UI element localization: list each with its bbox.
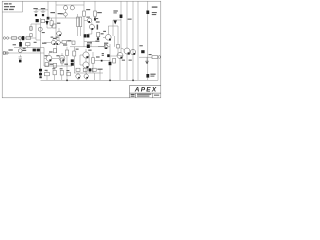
vertical x40	[40, 53, 42, 78]
trimmer circle	[64, 13, 68, 17]
resistor x69	[65, 50, 68, 55]
node blob x48	[47, 17, 50, 20]
diode D5	[120, 15, 123, 19]
wire vertical x121	[120, 1, 122, 52]
resistor horizontal	[62, 41, 67, 44]
driver Q11	[59, 55, 65, 61]
text smudges	[4, 3, 159, 97]
transistor Q7	[57, 31, 62, 36]
junction dots on rail	[66, 80, 68, 82]
resistor R7	[83, 11, 86, 16]
capacitor C3 blob	[22, 36, 25, 40]
vertical x158	[157, 58, 159, 80]
capacitor C2	[41, 10, 46, 13]
resistor box left of x56	[53, 24, 56, 28]
dark mark under box	[97, 37, 99, 40]
bottom transistor QF	[76, 74, 80, 78]
vertical x110	[109, 44, 111, 80]
node wires input stage	[31, 18, 41, 53]
transistor Q6b	[106, 35, 112, 41]
mid small circle	[104, 45, 108, 49]
border frame	[2, 1, 161, 98]
resistor R8	[94, 11, 97, 16]
diff pair Q9	[56, 40, 60, 44]
box D2	[50, 21, 53, 26]
transistor Q1	[38, 27, 42, 31]
wire vertical x127	[126, 1, 128, 48]
capacitor C4 dark	[19, 42, 22, 47]
diodes dark lower left	[84, 34, 87, 37]
output stage upper wire	[70, 46, 106, 48]
small comp	[72, 41, 75, 44]
wire y41.3	[84, 37, 99, 42]
output transistor QB	[83, 62, 89, 68]
svg-text:APEX: APEX	[134, 87, 158, 94]
diode dark on x110	[109, 62, 112, 65]
wire input	[9, 37, 36, 39]
output terminal	[158, 56, 161, 59]
capacitor C1	[34, 10, 39, 13]
resistor	[113, 58, 116, 63]
output transistor QA	[83, 52, 89, 58]
gray bar label x97	[97, 25, 99, 30]
electrolytic circle	[18, 49, 22, 53]
bottom row boxes	[76, 68, 80, 71]
resistor above wire	[26, 43, 30, 46]
resistor R4	[26, 37, 31, 40]
wires vas	[84, 19, 92, 47]
diode D1 dark	[45, 21, 48, 26]
input jack J1	[3, 37, 5, 39]
bottom component row	[44, 72, 49, 75]
diode dark	[71, 59, 74, 62]
bottom rail	[41, 79, 159, 81]
wire vertical x95	[94, 1, 96, 11]
resistor R1	[12, 37, 17, 40]
transistor Q5	[87, 18, 92, 23]
pot circle	[18, 36, 21, 39]
diode D8	[146, 11, 149, 15]
junction blob	[107, 54, 110, 57]
wire y60.6	[94, 60, 110, 62]
transistor Q4	[70, 6, 74, 10]
text marks	[103, 31, 106, 32]
output wire	[139, 56, 152, 58]
wire y18	[48, 17, 79, 19]
small box feedback	[30, 27, 33, 31]
dark blob right	[141, 50, 144, 53]
bottom transistor QG	[84, 74, 88, 78]
transistor QD	[124, 48, 130, 54]
box mid column	[97, 32, 100, 36]
wire vertical x56	[55, 1, 58, 53]
resistor pair tall	[77, 17, 79, 27]
bottom left blobs	[39, 69, 42, 72]
labels top caps	[33, 8, 37, 9]
cap below to ground	[19, 55, 22, 58]
driver Q10	[46, 55, 52, 61]
transistor Q3	[63, 6, 67, 10]
wire vertical x148	[147, 1, 149, 80]
transistor QE	[130, 49, 135, 54]
title block	[130, 85, 162, 97]
diff pair Q8	[51, 40, 55, 44]
bottom emitter resistors wires	[74, 68, 103, 80]
diode dark top mid	[114, 20, 117, 24]
transistor Q6	[89, 24, 94, 29]
vertical x118 upper	[117, 26, 119, 55]
wire vertical x138	[137, 1, 139, 80]
title text lines	[4, 3, 8, 4]
resistor boxes mid	[53, 49, 56, 53]
title box top-left	[2, 1, 22, 12]
lower mid wires	[44, 48, 74, 74]
diode pair dark	[33, 49, 36, 52]
resistor	[60, 58, 63, 63]
text marks	[102, 53, 104, 54]
wire vertical x133	[132, 1, 134, 80]
transistor QC	[117, 53, 123, 59]
connector J2	[3, 52, 5, 55]
ground stub	[146, 57, 148, 61]
input row2 wire	[2, 48, 44, 54]
blob on x148	[146, 74, 149, 78]
diode dark mid	[87, 44, 90, 48]
resistor lower	[45, 63, 48, 67]
resistor output	[152, 56, 158, 59]
wire mid right	[110, 55, 117, 57]
box right of blob	[41, 19, 45, 22]
wire top pair	[56, 5, 84, 13]
box left of outputs	[73, 51, 76, 56]
diode blob under R8	[94, 18, 96, 21]
cap top wire	[36, 9, 48, 11]
dark node blob	[36, 19, 39, 22]
ground tick x40	[39, 76, 41, 78]
wire vertical supply	[47, 1, 49, 18]
wire vertical x84	[83, 1, 85, 11]
title block texts	[131, 94, 135, 95]
resistor right of outputs	[92, 58, 95, 64]
